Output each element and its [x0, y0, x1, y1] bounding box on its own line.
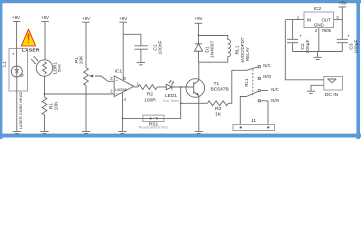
ground (regulator): [313, 52, 321, 60]
ground (IC1 pin4): [118, 131, 126, 133]
wire node B down to RS1: [164, 87, 181, 118]
svg-text:+9V: +9V: [41, 15, 49, 20]
svg-text:+9V: +9V: [82, 16, 90, 21]
wire IC2 pin1 to input node: [285, 19, 304, 21]
ground (P1): [82, 131, 90, 133]
svg-text:10K: 10K: [79, 55, 85, 64]
wire R3 from node C: [181, 102, 208, 104]
relay contact arm 1: [247, 67, 259, 71]
svg-text:R3: R3: [215, 106, 222, 112]
wire op-amp pin 4 to ground: [122, 92, 124, 131]
svg-text:1N4007: 1N4007: [209, 41, 215, 58]
resistor R2: [138, 85, 157, 104]
transistor Q1 T1 BC547B: [186, 62, 229, 131]
potentiometer P1: [74, 55, 114, 131]
svg-text:+: +: [299, 34, 302, 39]
svg-text:BC547B: BC547B: [211, 87, 229, 93]
wire DC IN to ground: [311, 85, 324, 91]
svg-text:GND: GND: [314, 23, 324, 28]
wire L1 to ground: [16, 77, 18, 131]
frame border left: [0, 0, 2, 139]
svg-text:100nF: 100nF: [157, 41, 163, 55]
svg-text:5mm: 5mm: [58, 64, 62, 72]
svg-text:−: −: [116, 90, 119, 95]
svg-text:100R: 100R: [144, 98, 156, 104]
wire RS1 left to pin4 line: [123, 117, 143, 119]
frame border top: [0, 0, 361, 3]
relay contact arm 2: [247, 91, 259, 96]
contact N/C 1: [258, 63, 271, 68]
relay coil RL1: [228, 37, 250, 62]
svg-text:ReedSwitch N/O: ReedSwitch N/O: [139, 125, 169, 130]
svg-text:LASER CARD HEAD: LASER CARD HEAD: [18, 92, 23, 130]
wire op-amp output: [134, 86, 138, 88]
diode D1 1N4007: [194, 36, 215, 63]
power +9V rail relay: [195, 16, 203, 36]
wire +9V branch to C1: [123, 34, 141, 46]
frame border bottom: [0, 134, 361, 138]
svg-text:7805: 7805: [321, 28, 331, 33]
svg-text:IC2: IC2: [314, 6, 322, 12]
relay contact set 2 pole: [240, 97, 246, 125]
svg-text:IC1: IC1: [115, 69, 123, 75]
capacitor C1: [134, 41, 163, 63]
svg-text:N/C: N/C: [263, 63, 271, 68]
ground (C1): [137, 63, 145, 65]
wire IC2 pin3 to +9V: [334, 19, 343, 21]
svg-text:+9V: +9V: [195, 16, 203, 21]
contact N/O 2: [258, 98, 280, 125]
node A junction: [44, 93, 46, 95]
power +9V IC2 output: [339, 1, 347, 20]
connector J1: [233, 118, 275, 131]
wire R3 to relay pole 1: [228, 70, 232, 103]
svg-text:+9V: +9V: [119, 16, 127, 21]
ground (R1): [40, 131, 48, 133]
laser warning triangle: [21, 29, 40, 53]
svg-text:RELAY: RELAY: [245, 47, 250, 61]
svg-text:T1: T1: [214, 81, 220, 87]
junction pin4 / RS1: [122, 118, 124, 120]
svg-text:N/C: N/C: [271, 87, 279, 92]
relay contact set 1 pole: [232, 69, 247, 71]
svg-text:+9V: +9V: [339, 1, 347, 6]
svg-text:1K: 1K: [215, 112, 222, 118]
ground (T1 emitter): [195, 131, 203, 133]
capacitor C3: [337, 20, 360, 54]
node C junction (R3 tap): [180, 102, 182, 104]
light arrows into LDR1: [31, 56, 38, 64]
wire node A to op-amp pin 2: [45, 93, 115, 95]
svg-text:J1: J1: [251, 118, 256, 124]
svg-text:10K: 10K: [53, 101, 59, 110]
reed switch RS1: [139, 115, 169, 130]
wire LDR1 to node A: [44, 76, 46, 94]
laser diode L1: [11, 49, 24, 78]
frame border right: [356, 0, 360, 139]
op-amp U1 IC1 LM358: [110, 69, 139, 102]
wire LED1 to T1 base: [172, 86, 194, 88]
resistor R1: [42, 94, 59, 131]
resistor R3: [207, 101, 228, 118]
power +9V rail IC1: [119, 16, 127, 81]
svg-text:DC IN: DC IN: [325, 92, 339, 98]
svg-text:+: +: [116, 78, 119, 83]
ground rail (regulator): [293, 51, 343, 53]
LED1: [163, 80, 180, 103]
svg-text:L1: L1: [2, 61, 8, 67]
node B junction (base): [180, 86, 182, 88]
capacitor C2: [287, 20, 311, 54]
svg-text:+9V: +9V: [12, 15, 20, 20]
svg-text:100µF: 100µF: [353, 40, 359, 54]
wire coil bottom to T1 collector: [199, 61, 228, 63]
power +9V rail L1: [12, 15, 20, 49]
wire R2 to LED1: [157, 86, 166, 88]
LDR1: [36, 60, 61, 76]
node D junction (+9V rail / D1): [198, 35, 200, 37]
svg-text:+: +: [347, 34, 350, 39]
contact N/O 1: [258, 74, 271, 80]
power +9V rail P1: [82, 16, 90, 68]
wire IC2 pin2 to ground rail: [318, 28, 320, 52]
svg-text:Grn 3mm: Grn 3mm: [163, 98, 180, 103]
svg-text:N/O: N/O: [271, 98, 279, 103]
svg-text:IN: IN: [307, 18, 311, 23]
regulator IC2 7805: [297, 6, 339, 33]
laser module L1 box: [2, 49, 27, 92]
DC IN jack: [324, 77, 343, 99]
relay mechanical link (dashed): [252, 70, 254, 98]
power +9V rail LDR1: [41, 15, 49, 60]
svg-text:N/O: N/O: [263, 74, 271, 79]
svg-text:R2: R2: [147, 92, 154, 98]
wire +9V rail to relay coil: [199, 36, 228, 40]
ground (L1): [13, 131, 21, 133]
svg-text:RL1: RL1: [244, 78, 249, 87]
contact N/C 2: [258, 87, 279, 92]
ground (DC IN): [307, 91, 315, 93]
wire input node to DC IN: [285, 20, 324, 80]
